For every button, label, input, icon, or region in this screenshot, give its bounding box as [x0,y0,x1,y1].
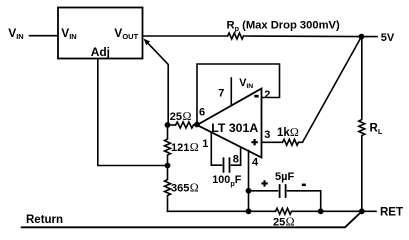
resistor 25ohm top [176,122,194,128]
node 5uF left [246,188,252,194]
node Adj junction [165,163,171,169]
svg-text:6: 6 [199,107,205,119]
wire 5uF rail [249,190,278,192]
svg-text:365Ω: 365Ω [171,180,199,194]
capacitor C2 5uF plates [279,185,281,197]
capacitor C1 100pF plates [223,158,225,172]
node RET RL [359,208,365,214]
label 5uF plus [261,180,267,186]
arrowhead into Vout [144,39,151,46]
svg-text:5V: 5V [381,32,395,44]
wire pin8 stub [232,149,241,166]
op-amp U2 triangle [197,89,262,158]
resistor 121ohm [165,125,171,166]
svg-text:100pF: 100pF [212,174,241,188]
svg-text:1: 1 [202,138,208,150]
wire pin7 stub [230,78,232,106]
node RET pin4 [246,208,252,214]
svg-text:25Ω: 25Ω [273,214,295,228]
svg-text:3: 3 [264,129,270,141]
svg-text:8: 8 [233,154,239,166]
svg-text:Adj: Adj [91,45,110,59]
svg-text:2: 2 [264,89,270,101]
wire 5uF to RET corner [288,191,321,212]
wire Rp to 5V node [244,35,362,38]
svg-text:LT 301A: LT 301A [211,121,258,135]
svg-text:Return: Return [26,214,63,226]
svg-text:7: 7 [218,87,224,99]
resistor 25ohm top leads [168,124,176,126]
wire RET rail left [168,210,276,212]
resistor 25ohm bottom [276,208,292,214]
node 5V [359,34,365,40]
wire Vin input [30,35,59,37]
resistor RL [359,37,365,212]
wire RET rail right [292,210,377,212]
wire sense arrow shaft [147,42,168,125]
svg-text:121Ω: 121Ω [171,140,199,154]
resistor 365ohm [165,166,171,212]
svg-text:5µF: 5µF [275,171,294,183]
svg-text:Rp (Max Drop 300mV): Rp (Max Drop 300mV) [227,19,340,33]
node left of 25ohm [165,122,171,128]
wire Vout to Rp [143,35,228,37]
wire Return line [22,211,362,227]
wire pin3 to 1k [262,141,283,143]
label 5uF minus [302,184,306,187]
resistor RP [228,33,244,39]
regulator U1 box [58,8,143,59]
wire pin4 down [248,151,250,212]
label minus input [254,95,258,98]
svg-text:4: 4 [252,157,259,169]
svg-text:1kΩ: 1kΩ [277,125,299,139]
node pin6 apex [194,122,200,128]
wire 5V stub [361,36,377,38]
resistor 1k [283,139,299,145]
wire feedback loop pin6 to pin2 [197,64,280,125]
wire 1k to 5V diagonal [299,37,362,143]
label plus input [251,139,257,145]
node RET 5uF right [318,208,324,214]
svg-text:RET: RET [380,207,403,219]
svg-text:25Ω: 25Ω [170,109,192,123]
wire Adj pin [98,59,168,166]
wire pin1 stub [211,133,221,166]
